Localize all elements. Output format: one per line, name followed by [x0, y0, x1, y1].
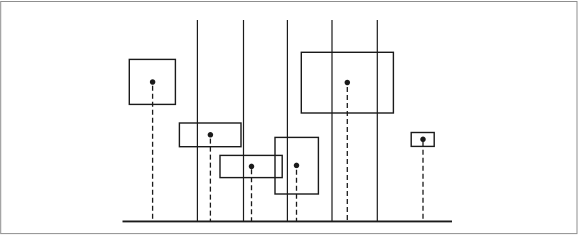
- vertical line L2: [243, 20, 245, 221]
- point p2: [208, 132, 214, 138]
- box B1: [129, 59, 175, 104]
- point p6: [420, 137, 426, 143]
- dashed dropline from p6: [422, 142, 424, 221]
- point p3: [249, 164, 255, 170]
- box B4: [275, 137, 318, 194]
- dashed dropline from p2: [209, 139, 211, 221]
- box B6: [411, 133, 434, 147]
- dashed dropline from p4: [296, 170, 298, 221]
- vertical line L3: [286, 20, 288, 221]
- point p4: [294, 163, 300, 169]
- dashed dropline from p1: [152, 86, 154, 221]
- vertical line L5: [376, 20, 378, 221]
- dashed dropline from p5: [346, 87, 348, 221]
- box B2: [179, 123, 241, 147]
- vertical line L1: [196, 20, 198, 221]
- baseline: [123, 220, 453, 222]
- box B5: [301, 52, 393, 113]
- point p5: [345, 80, 351, 86]
- dashed dropline from p3: [251, 169, 253, 220]
- point p1: [150, 79, 156, 85]
- box B3: [220, 155, 282, 177]
- vertical line L4: [331, 20, 333, 221]
